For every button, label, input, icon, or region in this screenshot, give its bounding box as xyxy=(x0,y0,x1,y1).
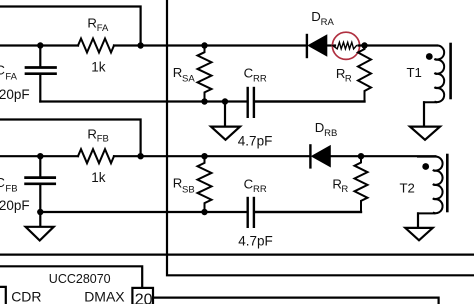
svg-text:T2: T2 xyxy=(400,181,415,196)
wire main B mid xyxy=(114,155,310,157)
svg-text:RA: RA xyxy=(321,17,335,28)
wire diode A to circle xyxy=(327,44,335,46)
svg-text:RR: RR xyxy=(253,73,267,84)
T1 ground xyxy=(410,127,440,140)
svg-text:20pF: 20pF xyxy=(0,198,30,213)
svg-text:T1: T1 xyxy=(407,65,422,80)
ground A stub xyxy=(224,102,226,127)
svg-text:R: R xyxy=(173,65,183,80)
svg-text:FB: FB xyxy=(97,134,109,145)
ground A xyxy=(211,127,240,140)
svg-text:D: D xyxy=(315,120,325,135)
svg-text:R: R xyxy=(87,16,97,31)
node CFB bottom junction xyxy=(37,209,43,215)
svg-text:UCC28070: UCC28070 xyxy=(49,272,111,286)
pin box 20 xyxy=(132,288,153,304)
wire diode B to T2 xyxy=(330,155,435,157)
svg-text:R: R xyxy=(345,73,352,84)
resistor RFB xyxy=(78,149,114,163)
svg-text:1k: 1k xyxy=(91,59,106,74)
T2 ground xyxy=(405,228,432,240)
ground CFB xyxy=(26,227,54,241)
capacitor CRR A xyxy=(248,88,254,117)
svg-text:R: R xyxy=(87,127,97,142)
svg-text:FA: FA xyxy=(5,72,17,83)
T1 polarity dot xyxy=(426,53,433,60)
pin box CDR edge xyxy=(0,287,6,304)
node RFA right junction xyxy=(137,42,143,48)
wire CRR-B to RR-B xyxy=(255,211,361,213)
wire RR A bottom xyxy=(255,100,365,102)
resistor RSA xyxy=(198,46,212,102)
wire top feedback line A xyxy=(0,7,141,46)
node ground A junction xyxy=(222,98,228,104)
wire main A left xyxy=(0,44,78,46)
capacitor CFB xyxy=(26,156,55,212)
node CFB junction xyxy=(37,153,43,159)
svg-text:1k: 1k xyxy=(91,170,106,185)
wire horizontal rail 1 xyxy=(0,254,474,256)
node RFB right junction xyxy=(137,153,143,159)
svg-text:FB: FB xyxy=(5,184,17,195)
svg-text:20pF: 20pF xyxy=(0,87,30,102)
T1 ground stub xyxy=(423,102,425,126)
svg-text:CDR: CDR xyxy=(11,288,41,304)
wire top feedback line B xyxy=(0,120,141,157)
node CFA junction xyxy=(37,42,43,48)
wire bottom A xyxy=(40,100,246,102)
svg-text:DMAX: DMAX xyxy=(84,288,125,304)
transformer T1 winding xyxy=(424,45,444,102)
svg-text:D: D xyxy=(311,9,321,24)
wire vertical bus with lower rail xyxy=(167,0,474,275)
T2 polarity dot xyxy=(422,163,429,170)
svg-text:R: R xyxy=(341,184,348,195)
diode DRB xyxy=(310,145,330,167)
UCC28070 box outline xyxy=(0,266,142,288)
svg-text:4.7pF: 4.7pF xyxy=(238,133,273,148)
svg-text:SB: SB xyxy=(182,184,195,195)
svg-text:4.7pF: 4.7pF xyxy=(238,233,273,248)
resistor RFA xyxy=(78,39,114,53)
node RSB top junction xyxy=(201,153,207,159)
highlight circle (red) xyxy=(332,32,359,59)
wire circle to T1 xyxy=(359,44,438,46)
transformer T2 winding xyxy=(418,157,443,214)
ground CFB stub xyxy=(39,212,41,226)
wire bottom B xyxy=(40,211,246,213)
svg-text:R: R xyxy=(173,176,183,191)
wire CRR-A to RR-A xyxy=(255,100,365,102)
resistor RR-A damping zigzag in circle xyxy=(333,42,357,49)
resistor RR A vertical xyxy=(358,46,371,102)
capacitor CFA xyxy=(26,46,56,102)
node B junction xyxy=(358,153,364,159)
svg-text:RB: RB xyxy=(324,128,337,139)
wire RR B bottom xyxy=(255,211,361,213)
transformer T2 core bar xyxy=(446,155,449,211)
resistor RSB xyxy=(198,156,212,212)
node A junction xyxy=(361,42,367,48)
node RSA bottom junction xyxy=(201,98,207,104)
wire main B left xyxy=(0,155,78,157)
node RSA top junction xyxy=(201,42,207,48)
wire pin 20 xyxy=(153,298,439,304)
wire main A mid xyxy=(114,44,306,46)
svg-text:SA: SA xyxy=(182,74,195,85)
node RSB bottom junction xyxy=(201,209,207,215)
svg-text:FA: FA xyxy=(97,23,109,34)
diode DRA xyxy=(307,35,327,57)
transformer T1 core bar xyxy=(449,44,452,98)
T2 ground stub xyxy=(417,213,419,227)
capacitor CRR B xyxy=(248,198,254,227)
svg-text:20: 20 xyxy=(135,292,153,304)
resistor RR B vertical xyxy=(355,156,368,212)
svg-text:RR: RR xyxy=(253,184,267,195)
